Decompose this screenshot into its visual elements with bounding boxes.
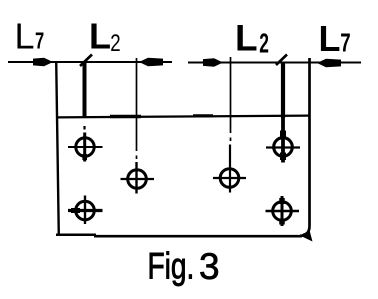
- hole H2 vertical crosshair: [135, 162, 137, 194]
- svg-text:7: 7: [35, 29, 44, 54]
- svg-text:3: 3: [199, 246, 220, 287]
- hole H4 upper-right circle: [274, 138, 293, 157]
- svg-text:L: L: [319, 18, 341, 59]
- plate bottom edge right part: [94, 235, 302, 238]
- hole H1 horizontal crosshair: [68, 146, 103, 148]
- hole H4 vertical bulge top: [280, 131, 286, 139]
- arrow L2-right (points right): [203, 58, 223, 66]
- hole H6 vertical crosshair thick: [281, 196, 284, 226]
- hole H6 vertical bulge bottom: [279, 219, 285, 225]
- centerline 1 dot: [136, 156, 138, 160]
- hole H5 lower-left circle: [76, 201, 95, 220]
- hole H6 horizontal crosshair: [266, 210, 300, 212]
- hole H3 horizontal crosshair: [213, 177, 246, 179]
- dimension line right segment: [188, 62, 361, 64]
- svg-text:L: L: [15, 16, 35, 57]
- hole H5 horizontal crosshair thick: [68, 209, 103, 212]
- hole H1 vertical bulge bottom: [82, 154, 87, 160]
- inner line thick patch 2: [193, 114, 213, 117]
- hole H4 vertical bulge bottom: [280, 153, 286, 161]
- hole H6 lower-right circle: [273, 202, 292, 221]
- centerline 2 dot: [230, 138, 232, 142]
- hole H2 middle-left circle: [128, 170, 147, 189]
- hole H2 horizontal crosshair: [121, 178, 155, 180]
- arrow L2-left (points left): [139, 58, 163, 66]
- plate right edge with rounded bottom corner: [300, 58, 310, 236]
- hole H6 vertical bulge top: [279, 198, 285, 204]
- svg-text:7: 7: [340, 27, 350, 57]
- svg-text:L: L: [89, 16, 111, 57]
- oblique tick at right slot line: [276, 55, 287, 66]
- arrow L7-left (points right): [33, 58, 53, 66]
- inner line thick patch 1: [110, 115, 141, 118]
- hole H1 vertical crosshair: [83, 133, 86, 162]
- arrow L7-right (points left): [317, 59, 341, 67]
- hole H3 middle-right circle: [220, 169, 239, 188]
- svg-text:Fig.: Fig.: [148, 245, 195, 287]
- hole H1 upper-left circle: [76, 138, 94, 156]
- inner horizontal line: [57, 116, 309, 118]
- svg-text:2: 2: [259, 27, 269, 58]
- dimension line left segment: [8, 61, 172, 63]
- plate left edge: [56, 61, 59, 236]
- hole H4 horizontal crosshair: [266, 146, 300, 148]
- corner tail blob: [302, 228, 313, 242]
- hole H5 vertical crosshair: [84, 196, 86, 225]
- svg-text:2: 2: [110, 30, 120, 57]
- oblique tick at left slot line: [80, 55, 92, 67]
- hole H5 horizontal bulge left: [71, 208, 80, 213]
- hole H3 vertical crosshair: [229, 145, 231, 193]
- centerline 1 (x=136.5): [136, 58, 138, 151]
- thick slot line left: [83, 62, 87, 118]
- dot under slot line left: [83, 126, 85, 130]
- svg-text:L: L: [235, 18, 258, 59]
- caption Fig. 3: [148, 245, 195, 287]
- thick slot line right: [281, 62, 285, 118]
- plate bottom edge left part: [56, 234, 96, 237]
- slot line right lower continuation through hole: [281, 118, 285, 163]
- centerline 2 (x=230.5): [230, 57, 232, 133]
